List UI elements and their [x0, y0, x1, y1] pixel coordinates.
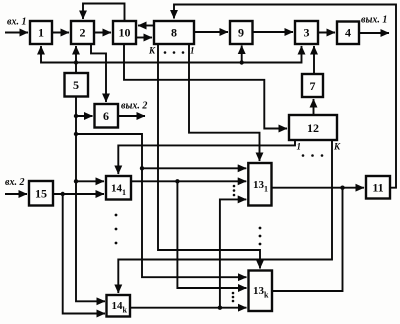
wire riser x220 to 13_1 third input	[220, 199, 246, 307]
wire box5 top up into box2 bottom	[75, 46, 77, 73]
wire 13_1 output to box11	[272, 187, 365, 189]
box 13_1	[248, 163, 271, 206]
box 9	[230, 21, 253, 44]
wire box3 to box4	[318, 32, 335, 34]
wire box12 output 1 to 14_1 top	[118, 140, 295, 174]
svg-text:4: 4	[345, 26, 351, 40]
junction dot box5 rail	[74, 60, 78, 64]
wire box11 up right side to box8 top	[174, 5, 396, 188]
junction dot box9 feed	[240, 60, 244, 64]
junction dot box11 input	[340, 186, 344, 190]
wire 13k output up to box11 input	[272, 188, 343, 291]
wire top rail box10 to box2 top	[83, 4, 125, 22]
box 10	[113, 21, 136, 44]
junction dot y134 branch	[74, 132, 78, 136]
wire branch to 13_1 first input	[142, 167, 246, 169]
wire net A vertical from box5 bottom to 14k upper input	[76, 97, 105, 302]
wire branch y134 down x142 to 13k first input	[76, 134, 247, 277]
wire branch x177 down to 13k second input	[177, 181, 246, 288]
box 14_k	[107, 295, 131, 317]
svg-text:131: 131	[253, 179, 268, 194]
ellipsis 13_k left inputs	[232, 292, 235, 295]
wire box9 to box3	[253, 31, 294, 33]
svg-text:вых. 2: вых. 2	[121, 101, 147, 112]
box 1	[30, 21, 52, 44]
box 12	[289, 115, 337, 140]
svg-text:вых. 1: вых. 1	[361, 15, 387, 26]
wire box2 to box10	[94, 32, 111, 34]
box 5	[65, 73, 89, 97]
box 11	[366, 176, 390, 199]
ellipsis 14 column	[115, 214, 118, 217]
wire box8 to box9	[194, 31, 228, 33]
wire box8 output 1 to 13_1 top	[189, 44, 260, 161]
svg-text:141: 141	[111, 183, 126, 198]
junction dot box6 feed	[74, 114, 78, 118]
wire box10 to box8 lower	[136, 37, 152, 39]
junction dot 14_1 output branch	[175, 179, 179, 183]
svg-text:6: 6	[103, 109, 109, 123]
junction dot box15 output	[61, 192, 65, 196]
wire branch to 14_1 upper input	[76, 180, 104, 182]
ellipsis under box 12	[302, 154, 305, 157]
wire branch into box6 left	[76, 115, 93, 117]
svg-text:7: 7	[310, 79, 316, 93]
wire box8 to box10 upper	[138, 25, 154, 27]
svg-text:2: 2	[80, 26, 86, 40]
ellipsis 13_1 left inputs	[233, 185, 236, 188]
wire box15 output to 14_1 lower input	[53, 193, 104, 195]
wire box12 top to box7 bottom	[313, 99, 315, 115]
wire branch x62 down to 14k lower input	[63, 194, 105, 314]
junction dot 13_1 feed x142	[140, 166, 144, 170]
wire box2 bottom to box6 top	[91, 44, 106, 102]
svg-text:1: 1	[38, 26, 44, 40]
svg-text:14k: 14k	[112, 300, 128, 315]
box 8	[154, 21, 194, 44]
svg-text:К: К	[333, 142, 341, 152]
svg-text:12: 12	[307, 121, 319, 135]
svg-text:10: 10	[119, 26, 131, 40]
svg-text:9: 9	[238, 26, 244, 40]
junction dot 14_1 upper feed	[74, 179, 78, 183]
svg-text:5: 5	[73, 78, 79, 92]
svg-text:1: 1	[297, 142, 302, 152]
svg-text:15: 15	[35, 187, 47, 201]
box 2	[71, 21, 94, 44]
wire long rail to box3 bottom	[76, 46, 302, 63]
wire 14_1 output to 13_1 second input	[131, 180, 246, 182]
wire box4 to output vyx1	[359, 32, 389, 34]
svg-text:К: К	[148, 46, 156, 56]
ellipsis under box 8	[164, 51, 167, 54]
svg-text:3: 3	[304, 26, 310, 40]
wire input vx1 arrow into box 1	[5, 32, 28, 34]
wire box8 output K to 13k top	[158, 44, 260, 269]
box 14_1	[106, 176, 131, 200]
svg-text:13k: 13k	[253, 285, 269, 300]
ellipsis 13 column	[259, 227, 262, 230]
box 15	[29, 181, 53, 206]
wire 14k output to 13k third input	[130, 307, 247, 309]
wire box12 output K to 14k top	[118, 140, 332, 293]
wire branch up into box9 bottom	[241, 46, 243, 63]
box 7	[302, 74, 323, 97]
svg-text:вх. 1: вх. 1	[7, 17, 26, 28]
junction dot 14k output branch	[218, 306, 222, 310]
box 4	[337, 22, 359, 45]
svg-text:8: 8	[171, 26, 177, 40]
svg-text:1: 1	[190, 46, 195, 56]
svg-text:вх. 2: вх. 2	[5, 177, 24, 188]
wire box7 top to box3 bottom	[313, 46, 315, 74]
wire box6 output vyx2	[118, 115, 145, 117]
wire branch to box1 bottom	[41, 46, 76, 63]
wire input vx2 into box15	[5, 193, 27, 195]
svg-text:11: 11	[372, 181, 383, 195]
box 13_k	[249, 271, 273, 312]
box 3	[295, 21, 318, 44]
wire box1 to box2	[52, 32, 69, 34]
wire box10 bottom to box12 left	[124, 44, 287, 129]
box 6	[95, 104, 119, 128]
